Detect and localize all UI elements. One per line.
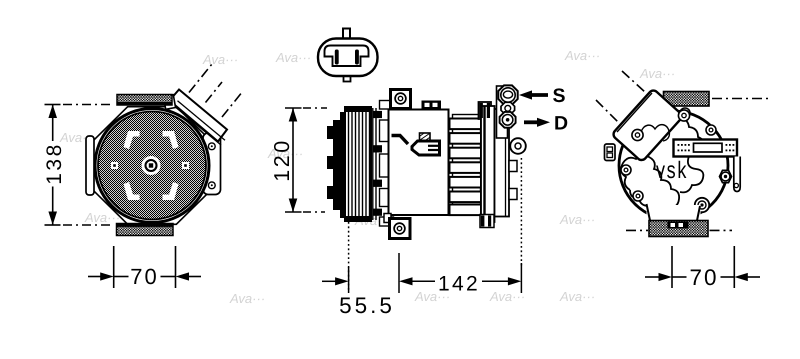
dim 120 bbox=[270, 108, 327, 212]
dash-dot leaders NW bbox=[596, 71, 646, 122]
cylinder ribs bbox=[450, 119, 482, 216]
MIDDLE VIEW bbox=[270, 29, 568, 319]
diagonal bar bracket bbox=[163, 90, 227, 146]
svg-text:Ava···: Ava··· bbox=[275, 50, 311, 65]
bolt boss (725.5,176.5) bbox=[720, 170, 732, 182]
tab centerline right2 bbox=[710, 229, 733, 231]
bolt hole top bbox=[208, 143, 215, 150]
bottom tab shoulder junction bbox=[647, 204, 701, 221]
west plate lug bbox=[86, 136, 94, 195]
svg-text:Ava···: Ava··· bbox=[229, 291, 265, 306]
bottom-left flange with hole bbox=[384, 214, 410, 239]
clutch arrow SE bbox=[163, 182, 179, 200]
mounting tab bottom bbox=[117, 224, 174, 236]
svg-text:55.5: 55.5 bbox=[339, 293, 395, 318]
bolt (638,196) bbox=[633, 191, 643, 201]
electrical connector plug (top) bbox=[318, 29, 378, 82]
D port bbox=[500, 112, 516, 128]
dim 70 right bbox=[645, 246, 760, 290]
right lug below plate bbox=[734, 157, 740, 192]
svg-text:Ava···: Ava··· bbox=[564, 48, 600, 63]
svg-text:70: 70 bbox=[689, 265, 718, 290]
bolt (711,130) bbox=[706, 125, 716, 135]
RIGHT VIEW bbox=[596, 71, 772, 290]
front housing silhouette (black) bbox=[327, 112, 347, 218]
port stem bbox=[497, 86, 508, 138]
mounting tab top bbox=[117, 95, 172, 106]
svg-text:vsk: vsk bbox=[656, 156, 688, 183]
svg-text:Ava···: Ava··· bbox=[559, 289, 595, 304]
clutch arrow NW bbox=[124, 131, 140, 149]
bolt (702,205) bbox=[695, 198, 709, 212]
harness connector plug bbox=[412, 141, 440, 155]
hatched clutch disc bbox=[98, 112, 206, 220]
main body bbox=[389, 110, 449, 216]
bracket plate right bbox=[203, 133, 221, 195]
svg-text:138: 138 bbox=[43, 142, 66, 185]
S arrow bbox=[519, 85, 566, 107]
diagonal bracket plate bbox=[612, 89, 690, 163]
rear main circle bbox=[619, 111, 728, 220]
dim 55.5 and 142 bbox=[322, 158, 521, 318]
svg-text:120: 120 bbox=[270, 138, 294, 181]
top-left flange with hole bbox=[391, 90, 411, 109]
top vent block bbox=[422, 101, 442, 110]
casting squiggle upper bbox=[641, 118, 704, 149]
clutch arrow SW bbox=[124, 182, 140, 200]
left lug bbox=[605, 144, 616, 161]
D arrow bbox=[524, 113, 568, 135]
tab centerline left bbox=[626, 229, 648, 231]
dim 138 bbox=[43, 105, 113, 226]
LEFT VIEW bbox=[43, 64, 243, 289]
clutch arrow NE bbox=[163, 131, 179, 149]
bolt hole bottom bbox=[208, 182, 215, 189]
bolt (685,113) bbox=[680, 108, 690, 118]
top-right mounting tab bbox=[664, 92, 710, 107]
hub bbox=[142, 156, 161, 175]
bolt (635,134) bbox=[630, 129, 640, 139]
svg-text:D: D bbox=[554, 113, 568, 135]
svg-text:Ava···: Ava··· bbox=[489, 289, 525, 304]
pulley outer circle bbox=[95, 109, 209, 223]
dash-dot leader lines NE bbox=[189, 64, 243, 117]
watermarks bbox=[59, 48, 675, 306]
casting squiggle mid bbox=[621, 155, 679, 215]
rear bolt boss bbox=[510, 138, 526, 154]
side square right bbox=[182, 162, 189, 169]
rear column bbox=[479, 102, 518, 228]
svg-text:70: 70 bbox=[130, 264, 158, 289]
dim 70 left bbox=[88, 246, 201, 289]
bolt (626,170) bbox=[621, 165, 631, 175]
svg-text:Ava···: Ava··· bbox=[202, 52, 238, 67]
harness hatched box bbox=[420, 133, 431, 141]
svg-text:Ava···: Ava··· bbox=[559, 212, 595, 227]
S port bbox=[498, 85, 517, 104]
ribbed belt pulley bbox=[345, 107, 371, 221]
casting squiggle right bbox=[680, 153, 703, 193]
cylinder rib backbone bbox=[453, 115, 481, 215]
mid bolt between ports bbox=[501, 102, 515, 114]
label plate bbox=[674, 140, 738, 157]
clutch plate ladder bbox=[373, 101, 394, 227]
harness wire bbox=[392, 136, 409, 145]
svg-text:S: S bbox=[553, 85, 566, 107]
housing octagon bbox=[93, 107, 212, 225]
bottom mounting tab bbox=[649, 221, 708, 237]
svg-text:142: 142 bbox=[438, 273, 480, 296]
tab centerline right bbox=[712, 98, 772, 100]
svg-text:Ava···: Ava··· bbox=[639, 66, 675, 81]
side square left bbox=[111, 162, 118, 169]
